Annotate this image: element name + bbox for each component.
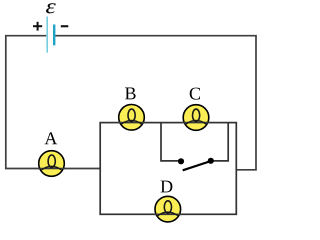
bulb B	[118, 105, 145, 131]
wire: switch branch right (right contact up to C right node)	[211, 123, 228, 161]
switch lever (open)	[183, 161, 211, 170]
battery negative plate (short)	[53, 25, 55, 46]
label D	[161, 181, 173, 193]
label C	[190, 88, 200, 100]
wire: switch branch left (down from B-C node to left contact)	[161, 123, 181, 161]
wire: battery negative lead (top-right wire, right edge, connector to inner box)	[55, 36, 256, 170]
label A	[45, 132, 58, 144]
wire: inner box (B,C top edge; D bottom edge)	[100, 123, 236, 215]
switch contact (right dot)	[208, 158, 214, 164]
wire: battery positive lead (top-left wire, left edge, bulb A row)	[6, 36, 100, 169]
battery positive plate (long)	[46, 17, 48, 53]
EMF label (script epsilon)	[46, 3, 56, 13]
bulb C	[183, 105, 210, 131]
switch contact (left dot)	[178, 158, 184, 164]
label B	[125, 88, 136, 100]
bulb A	[38, 151, 65, 177]
battery + sign	[33, 22, 42, 31]
bulb D	[154, 196, 181, 222]
battery - sign	[61, 25, 69, 27]
